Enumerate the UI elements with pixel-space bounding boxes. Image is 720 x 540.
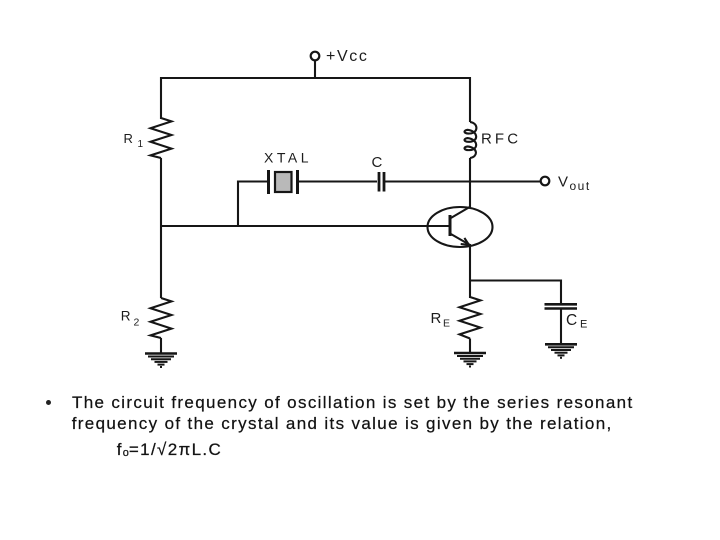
wire left rail middle: [160, 158, 162, 298]
ground under RE: [454, 353, 486, 367]
label RE: [431, 310, 451, 330]
svg-text:R: R: [431, 310, 442, 327]
wire top rail: [161, 78, 470, 122]
wire emitter rail: [469, 244, 471, 298]
terminal +Vcc circle: [311, 52, 320, 61]
transistor Q1: [428, 207, 493, 248]
resistor R1: [151, 118, 172, 158]
wire +Vcc stem: [314, 60, 316, 79]
wire R2 to ground: [160, 338, 162, 353]
svg-text:R: R: [121, 309, 131, 324]
svg-text:+Vcc: +Vcc: [326, 48, 368, 65]
text line 2: [72, 414, 613, 434]
wire CE to ground: [560, 309, 562, 345]
inductor RFC: [465, 122, 477, 158]
wire C to Vout: [385, 180, 541, 182]
wire XTAL branch vertical: [238, 182, 267, 227]
bullet point: [46, 400, 51, 405]
label CE: [566, 312, 587, 331]
capacitor CE: [545, 304, 578, 308]
ground under CE: [545, 344, 577, 358]
svg-text:R: R: [124, 131, 133, 146]
wire base node row: [160, 225, 450, 227]
svg-text:C: C: [372, 154, 383, 171]
ground under R2: [145, 354, 177, 368]
wire collector rail: [469, 158, 471, 208]
crystal XTAL: [269, 170, 298, 194]
svg-text:out: out: [570, 179, 591, 193]
svg-text:1: 1: [138, 139, 144, 150]
wire emitter to CE branch: [470, 281, 561, 305]
label R2: [121, 309, 140, 329]
svg-text:E: E: [443, 318, 450, 330]
text line 3: [117, 440, 222, 460]
text line 1: [72, 393, 634, 413]
svg-text:RFC: RFC: [481, 130, 521, 147]
resistor RE: [460, 297, 481, 339]
wire RE to ground: [469, 339, 471, 353]
svg-text:V: V: [558, 174, 568, 191]
svg-text:C: C: [566, 312, 577, 329]
svg-text:E: E: [580, 319, 587, 331]
label R1: [124, 131, 144, 150]
svg-text:XTAL: XTAL: [264, 149, 312, 165]
svg-text:2: 2: [134, 317, 140, 329]
label Vout: [558, 174, 591, 194]
resistor R2: [151, 298, 172, 338]
terminal Vout circle: [541, 177, 550, 186]
wire XTAL to C: [299, 180, 377, 182]
capacitor C: [379, 172, 384, 192]
